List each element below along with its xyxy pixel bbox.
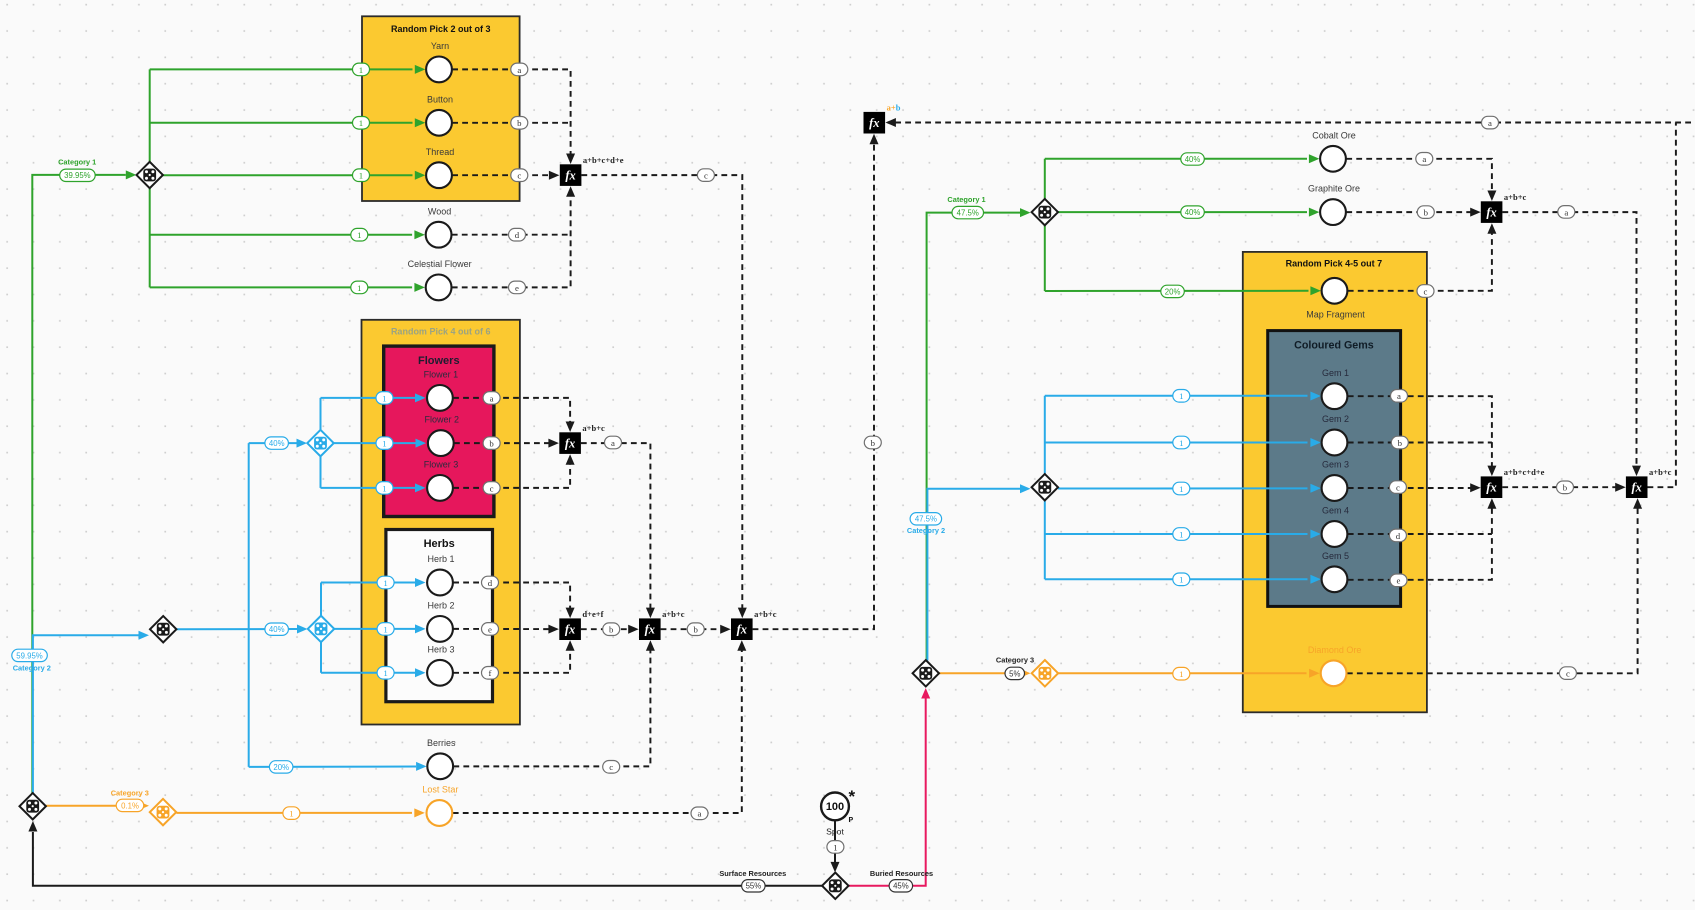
svg-text:20%: 20% [273,763,289,772]
dashed: Button output b [452,122,570,124]
svg-text:40%: 40% [269,439,285,448]
wire: herbs randomizer branches [320,583,322,673]
wire: diamond ore [1058,672,1306,674]
dashed: Diamond Ore output c [1347,505,1638,674]
svg-text:45%: 45% [893,882,909,891]
item node Yarn [426,57,452,83]
svg-text:55%: 55% [746,882,762,891]
item node Flower 1 [427,385,453,411]
item node Lost Star [427,800,453,826]
svg-text:1: 1 [383,624,387,634]
randomizer buried split [913,660,939,686]
item node Gem 2 [1322,430,1348,456]
svg-text:e: e [515,283,519,293]
svg-text:Coloured Gems: Coloured Gems [1294,339,1374,351]
dashed: Thread output c [452,174,549,176]
dashed: top feedback line a [891,122,1691,124]
svg-text:e: e [1397,576,1401,586]
item node Gem 4 [1322,521,1348,547]
svg-text:1: 1 [382,393,386,403]
svg-text:b: b [871,438,876,448]
dashed: Lost Star output a [453,647,742,814]
svg-text:c: c [704,171,708,181]
weight pill 1 [377,623,394,636]
wire: flowers randomizer branches [320,398,322,488]
svg-text:Flower 3: Flower 3 [424,460,459,470]
op fx merge2 [731,618,753,640]
weight pill 1 [1173,573,1190,586]
item node Map Fragment [1322,278,1348,304]
output pill b [1417,206,1434,219]
output pill c [511,169,528,182]
dashed: gems fx output b [1502,486,1616,488]
svg-text:fx: fx [565,437,575,451]
output pill d [1389,529,1406,542]
svg-text:Cobalt Ore: Cobalt Ore [1312,130,1356,140]
svg-text:40%: 40% [1185,155,1201,164]
output pill b [1557,481,1574,494]
svg-text:Random Pick 4-5 out 7: Random Pick 4-5 out 7 [1286,259,1383,269]
weight pill 1 [377,576,394,589]
dashed: Gem outputs a,b,c,d,e [1348,396,1492,469]
svg-text:c: c [1424,286,1428,296]
weight pill 1 [353,169,370,182]
svg-text:a+b+c: a+b+c [754,609,777,619]
svg-text:1: 1 [383,668,387,678]
output pill c [1389,481,1406,494]
svg-text:40%: 40% [269,625,285,634]
dashed: Cobalt Ore output a [1346,159,1492,195]
wire: to Thread [163,174,413,176]
svg-text:fx: fx [1631,481,1641,495]
output pill b [687,623,704,636]
weight pill 1 [1173,528,1190,541]
item node Spot (100) [821,793,849,821]
svg-text:b: b [609,625,614,635]
item node Wood [426,222,452,248]
svg-text:a: a [490,393,494,403]
probability pill 45% [889,880,913,892]
svg-text:Surface Resources: Surface Resources [719,869,786,878]
randomizer Category 3 right [1032,660,1058,686]
svg-text:1: 1 [1179,438,1183,448]
svg-text:59.95%: 59.95% [16,651,43,660]
svg-text:1: 1 [357,230,361,240]
output pill e [509,281,526,294]
output pill b [511,117,528,130]
svg-text:Category 3: Category 3 [996,656,1034,665]
randomizer master (bottom left) [19,793,45,819]
op fx gems sum [1481,476,1503,498]
dashed: herbs fx output b [581,628,629,630]
probability pill 5% [1005,667,1025,679]
svg-text:d+e+f: d+e+f [582,609,603,619]
wire: ores randomizer branches [1044,159,1046,291]
svg-text:fx: fx [565,623,575,637]
weight pill 1 [353,117,370,130]
dashed: Graphite Ore output b [1346,211,1471,213]
probability pill 20% [1161,285,1185,297]
svg-text:d: d [515,230,520,240]
svg-text:a: a [611,438,615,448]
svg-text:f: f [489,668,492,678]
svg-text:fx: fx [565,169,575,183]
svg-text:a+b+c: a+b+c [582,423,605,433]
item node Gem 5 [1322,566,1348,592]
svg-text:c: c [1396,483,1400,493]
svg-text:fx: fx [1486,206,1496,220]
dashed: Wood output d [452,234,571,236]
svg-text:c: c [609,762,613,772]
svg-text:a: a [1564,207,1568,217]
wire: Category 1 from master randomizer up left side [32,175,126,794]
weight pill 1 [1173,482,1190,495]
output pill f [482,667,499,680]
svg-text:Gem 1: Gem 1 [1322,368,1349,378]
output pill b [483,437,500,450]
group box: Random Pick 4 out of 6 [362,320,520,725]
svg-text:Category 3: Category 3 [111,789,149,798]
wire: Surface Resources [33,832,822,886]
wire: randomizer 1 branch vertical [149,69,151,287]
output pill c [1559,667,1576,680]
dashed: Herb outputs d,e,f [453,583,570,612]
item node Celestial Flower [426,275,452,301]
randomizer Herbs [308,616,334,642]
dashed: Flower outputs a,b,c [453,398,570,426]
item node Button [426,110,452,136]
svg-text:Category 1: Category 1 [947,195,985,204]
svg-text:Button: Button [427,94,453,104]
randomizer surface/buried [822,873,848,899]
svg-text:fx: fx [645,623,655,637]
weight pill 1 [1173,436,1190,449]
svg-text:a: a [517,65,521,75]
dashed: merge fx2 output b [753,140,874,629]
probability pill 55% [742,880,766,892]
item node Herb 3 [427,660,453,686]
weight pill 1 [353,63,370,76]
output pill a [691,807,708,820]
randomizer gems [1032,474,1058,500]
svg-text:d: d [488,578,493,588]
output pill b [1391,436,1408,449]
output pill d [509,228,526,241]
output pill e [482,623,499,636]
item node Herb 2 [427,616,453,642]
svg-text:1: 1 [359,118,363,128]
output pill 1 [827,841,844,854]
svg-text:Map Fragment: Map Fragment [1306,310,1365,320]
randomizer Flowers [307,430,333,456]
output pill b [603,623,620,636]
item node Diamond Ore [1321,660,1347,686]
dashed: ores fx output a [1502,212,1636,469]
output pill a [1416,153,1433,166]
svg-text:Flower 1: Flower 1 [424,370,459,380]
wire: Category 2 right side [927,489,1020,661]
probability pill 0.1% [116,799,144,811]
svg-text:1: 1 [1179,484,1183,494]
svg-text:a: a [698,809,702,819]
output pill a [605,436,622,449]
item node Cobalt Ore [1320,146,1346,172]
wire: orange randomizer to Lost Star [177,812,413,814]
wire: Buried Resources [849,699,926,886]
wire: Spot to surface/buried randomizer [834,820,836,862]
svg-text:20%: 20% [1165,287,1181,296]
wire: to Button [150,122,413,124]
svg-text:a: a [1397,391,1401,401]
op fx ores sum [1481,201,1503,223]
svg-text:a+b: a+b [887,103,901,113]
svg-text:1: 1 [382,483,386,493]
svg-text:a: a [1488,118,1492,128]
svg-text:0.1%: 0.1% [121,801,139,810]
svg-text:b: b [1563,483,1568,493]
dashed: flowers fx output a [581,443,651,611]
dashed: fx1 output c [581,175,742,611]
svg-text:Graphite Ore: Graphite Ore [1308,184,1360,194]
svg-text:fx: fx [1486,481,1496,495]
dashed: Yarn output a [452,69,570,157]
probability pill 59.95% [12,649,48,661]
svg-text:Herb 3: Herb 3 [427,644,454,654]
svg-text:a+b+c: a+b+c [1504,192,1527,202]
randomizer ores [1032,199,1058,225]
weight pill 1 [1173,390,1190,403]
dashed: Berries output c [453,647,650,767]
svg-text:Diamond Ore: Diamond Ore [1308,645,1362,655]
wire: Category 1 right side [927,213,1020,661]
svg-text:Flower 2: Flower 2 [425,415,460,425]
svg-text:P: P [848,817,853,824]
output pill c [1417,285,1434,298]
svg-text:a+b+c: a+b+c [662,609,685,619]
wire: Category 3 from master randomizer to orange randomizer [46,805,139,807]
svg-text:Category 1: Category 1 [58,157,96,166]
svg-text:Gem 5: Gem 5 [1322,551,1349,561]
probability pill 40% [1181,153,1205,165]
svg-text:1: 1 [833,842,837,852]
output pill e [1390,574,1407,587]
group box: Flowers [384,346,494,516]
svg-text:Category 2: Category 2 [907,526,945,535]
svg-text:Flowers: Flowers [418,355,460,367]
svg-text:47.5%: 47.5% [915,515,937,524]
item node Graphite Ore [1320,199,1346,225]
svg-text:Wood: Wood [428,206,451,216]
weight pill 1 [1173,667,1190,680]
randomizer Category 1 left [136,162,162,188]
svg-text:a+b+c+d+e: a+b+c+d+e [583,155,624,165]
dashed: Map Fragment output c [1348,230,1492,291]
svg-text:100: 100 [826,801,844,813]
svg-text:47.5%: 47.5% [957,209,979,218]
probability pill 40% [265,437,289,449]
svg-text:1: 1 [359,171,363,181]
probability pill 20% [269,761,293,773]
output pill c [603,761,620,774]
probability pill 47.5% [910,513,942,525]
svg-text:b: b [517,118,522,128]
op fx merge1 [639,618,661,640]
svg-text:a+b+c: a+b+c [1649,467,1672,477]
svg-text:1: 1 [382,439,386,449]
weight pill 1 [376,482,393,495]
item node Berries [427,753,453,779]
randomizer Category 3 left [150,799,176,825]
probability pill 39.95% [60,169,95,181]
wire: to Berries [249,766,416,768]
item node Herb 1 [427,570,453,596]
weight pill 1 [351,281,368,294]
randomizer Category 2 left [150,616,176,642]
op fx a+b top [864,112,886,134]
item node Flower 2 [428,430,454,456]
output pill a [1391,390,1408,403]
svg-text:c: c [517,171,521,181]
output pill a [483,392,500,405]
group box: Coloured Gems [1268,331,1401,607]
probability pill 47.5% [952,206,984,218]
output pill c [483,482,500,495]
svg-text:1: 1 [359,65,363,75]
group box: Random Pick 2 out of 3 [362,16,520,201]
svg-text:Yarn: Yarn [431,41,449,51]
group box: Herbs [386,530,493,702]
output pill b [864,436,881,449]
svg-text:1: 1 [289,809,293,819]
item node Flower 3 [427,475,453,501]
svg-text:b: b [489,439,494,449]
op fx final [1626,476,1648,498]
wire: to Celestial Flower [150,286,412,288]
svg-text:1: 1 [1179,669,1183,679]
wire: to Yarn [150,68,413,70]
svg-text:Random Pick 2 out of 3: Random Pick 2 out of 3 [391,24,491,34]
svg-text:Gem 3: Gem 3 [1322,460,1349,470]
op fx flowers sum [559,432,581,454]
svg-text:1: 1 [1179,391,1183,401]
svg-text:Herb 1: Herb 1 [427,554,454,564]
item node Thread [426,162,452,188]
svg-text:fx: fx [737,623,747,637]
output pill a [1558,206,1575,219]
wire: Category 3 right side [939,672,1020,674]
svg-text:1: 1 [1179,575,1183,585]
dashed: Celestial Flower output e [452,193,571,288]
svg-text:Category 2: Category 2 [13,664,51,673]
output pill a [511,63,528,76]
svg-text:e: e [488,624,492,634]
svg-text:d: d [1396,531,1401,541]
wire: Category 2 randomizer output branches [176,628,297,630]
svg-text:5%: 5% [1009,669,1020,678]
svg-text:Thread: Thread [426,147,455,157]
weight pill 1 [376,392,393,405]
svg-text:fx: fx [869,116,879,130]
svg-text:a: a [1422,154,1426,164]
svg-text:c: c [1566,669,1570,679]
svg-text:b: b [1424,208,1429,218]
svg-text:Random Pick 4 out of 6: Random Pick 4 out of 6 [391,327,491,337]
svg-text:Celestial Flower: Celestial Flower [408,259,472,269]
wire: Category 2 from master randomizer up left side [33,635,139,793]
output pill c [697,169,714,182]
svg-text:Lost Star: Lost Star [422,785,458,795]
weight pill 1 [351,228,368,241]
wire: to Wood [150,234,412,236]
svg-text:*: * [848,787,855,806]
svg-text:a+b+c+d+e: a+b+c+d+e [1504,467,1545,477]
probability pill 40% [1181,206,1205,218]
svg-text:40%: 40% [1185,208,1201,217]
svg-text:b: b [693,625,698,635]
svg-text:c: c [490,483,494,493]
svg-text:Herb 2: Herb 2 [427,601,454,611]
svg-text:Spot: Spot [826,826,844,836]
svg-text:39.95%: 39.95% [64,171,91,180]
op fx1 group1 sum [560,164,582,186]
weight pill 1 [283,807,300,820]
svg-text:1: 1 [357,283,361,293]
svg-text:Herbs: Herbs [424,538,455,550]
svg-text:Buried Resources: Buried Resources [870,869,933,878]
dashed: final fx output to top line [1648,123,1676,488]
svg-text:b: b [1398,438,1403,448]
probability pill 40% [265,623,289,635]
svg-text:Gem 4: Gem 4 [1322,506,1349,516]
item node Gem 1 [1322,383,1348,409]
group box: Random Pick 4-5 out 7 [1243,252,1427,712]
dashed: merge fx1 output b [661,628,721,630]
svg-text:1: 1 [1179,529,1183,539]
item node Gem 3 [1322,475,1348,501]
op fx herbs sum [559,618,581,640]
weight pill 1 [376,437,393,450]
svg-text:Gem 2: Gem 2 [1322,414,1349,424]
wire: gems randomizer branches [1044,396,1046,580]
svg-text:Berries: Berries [427,738,456,748]
output pill d [482,576,499,589]
weight pill 1 [377,667,394,680]
svg-text:1: 1 [383,578,387,588]
output pill a [1482,116,1499,129]
